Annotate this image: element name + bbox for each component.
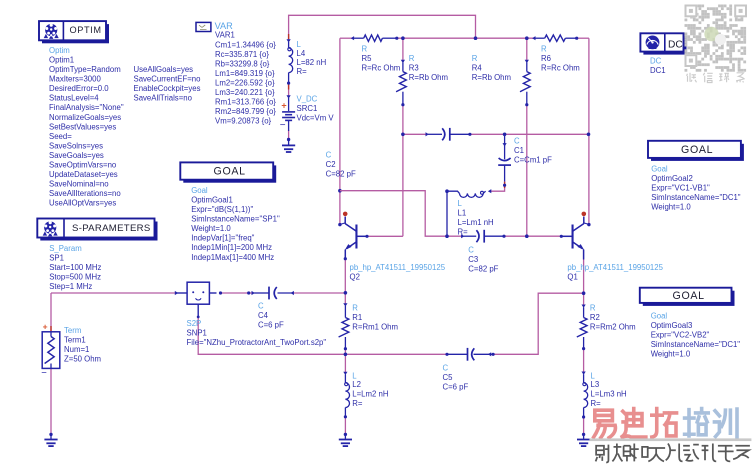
svg-text:IndepVar[1]="freq": IndepVar[1]="freq": [191, 234, 254, 243]
svg-text:SimInstanceName="SP1": SimInstanceName="SP1": [191, 215, 280, 224]
OptimGoal1 text: [191, 186, 280, 262]
OPTIM settings text column 2: [134, 65, 202, 103]
L2 labels: [352, 372, 388, 409]
svg-text:L1: L1: [458, 209, 467, 218]
svg-text:L3: L3: [591, 380, 600, 389]
svg-text:R=Rm2 Ohm: R=Rm2 Ohm: [590, 322, 636, 331]
junction node left branch: [338, 189, 342, 193]
resistor R1: [339, 303, 349, 349]
svg-text:Seed=: Seed=: [49, 132, 72, 141]
wire cross-couple to C3 left: [340, 191, 462, 237]
svg-text:UseAllOptVars=yes: UseAllOptVars=yes: [49, 199, 116, 208]
svg-text:Cm1=1.34496 {o}: Cm1=1.34496 {o}: [215, 40, 276, 49]
svg-text:R6: R6: [541, 54, 551, 63]
svg-text:Goal: Goal: [191, 186, 208, 195]
svg-text:Rm1=313.766 {o}: Rm1=313.766 {o}: [215, 98, 276, 107]
L3 labels: [591, 372, 627, 409]
capacitor C3: [461, 230, 504, 243]
svg-text:Rb=33299.8 {o}: Rb=33299.8 {o}: [215, 59, 270, 68]
svg-text:C=82 pF: C=82 pF: [468, 265, 498, 274]
svg-text:Rm2=849.799 {o}: Rm2=849.799 {o}: [215, 107, 276, 116]
svg-text:NormalizeGoals=yes: NormalizeGoals=yes: [49, 113, 121, 122]
svg-text:R4: R4: [472, 64, 483, 73]
capacitor C4: [252, 287, 295, 300]
svg-text:VAR: VAR: [215, 21, 234, 31]
SRC1 labels: [297, 95, 335, 123]
resistor R3: [396, 60, 406, 105]
svg-text:R: R: [352, 304, 358, 313]
wire SNP1 port2 to C5: [198, 317, 447, 354]
junctions on C2 net: [401, 133, 405, 137]
svg-text:R=: R=: [458, 228, 469, 237]
svg-text:C3: C3: [468, 255, 478, 264]
junctions on Q2 emitter column: [344, 291, 348, 295]
L4 labels: [297, 40, 327, 76]
svg-text:+: +: [43, 321, 48, 331]
svg-text:Step=1 MHz: Step=1 MHz: [49, 282, 92, 291]
capacitor C2: [426, 128, 470, 141]
svg-text:Expr="dB(S(1,1))": Expr="dB(S(1,1))": [191, 205, 253, 214]
svg-text:EnableCockpit=yes: EnableCockpit=yes: [134, 84, 201, 93]
capacitor C5: [445, 348, 494, 361]
svg-text:Weight=1.0: Weight=1.0: [651, 203, 691, 212]
svg-text:L2: L2: [352, 380, 361, 389]
svg-text:DC: DC: [668, 39, 683, 50]
wire L2 to ground: [344, 417, 346, 435]
svg-text:SetBestValues=yes: SetBestValues=yes: [49, 122, 116, 131]
svg-text:C: C: [326, 151, 332, 160]
wire Q2 emitter to R1: [344, 259, 346, 305]
svg-text:C=Cm1 pF: C=Cm1 pF: [514, 156, 552, 165]
Q2 pin nodes: [338, 223, 341, 226]
svg-text:VAR1: VAR1: [215, 31, 235, 40]
svg-text:C: C: [514, 137, 520, 146]
wire C1 bottom to L1: [491, 181, 505, 191]
gray watermark subtitle text: [596, 444, 750, 463]
svg-text:SaveNominal=no: SaveNominal=no: [49, 180, 109, 189]
R1 labels: [352, 304, 398, 332]
blue watermark logo text pei-xun: [685, 409, 737, 438]
wire rail to R4: [526, 38, 528, 61]
svg-text:V_DC: V_DC: [297, 95, 318, 104]
C3 labels: [468, 246, 498, 274]
ground under Term1: [44, 433, 57, 446]
svg-text:Q1: Q1: [567, 273, 577, 282]
svg-text:C5: C5: [443, 373, 454, 382]
WeChat contact text: [687, 73, 745, 83]
svg-text:OptimGoal2: OptimGoal2: [651, 174, 693, 183]
GOAL block OptimGoal2: [648, 141, 744, 161]
svg-text:GOAL: GOAL: [673, 290, 705, 302]
svg-text:Q2: Q2: [350, 273, 360, 282]
svg-text:DesiredError=0.0: DesiredError=0.0: [49, 84, 109, 93]
svg-text:C4: C4: [258, 311, 269, 320]
port terminal Term1: [41, 321, 60, 378]
wire SRC1 to ground: [288, 130, 290, 140]
svg-text:S-PARAMETERS: S-PARAMETERS: [72, 223, 151, 234]
OptimGoal2 text: [651, 165, 741, 212]
svg-text:UseAllGoals=yes: UseAllGoals=yes: [134, 65, 194, 74]
svg-text:SimInstanceName="DC1": SimInstanceName="DC1": [651, 340, 741, 349]
wire Term1 to ground: [50, 368, 52, 434]
svg-text:SNP1: SNP1: [187, 329, 207, 338]
wire R4 bottom to Q1 base node: [526, 105, 528, 237]
svg-text:OptimType=Random: OptimType=Random: [49, 65, 121, 74]
wire Q1 emitter to R2: [583, 260, 585, 306]
svg-text:DC: DC: [650, 56, 662, 65]
wire rail to R3: [402, 38, 404, 61]
OPTIM controller block: [39, 21, 109, 43]
SNP1 pin nodes: [219, 291, 222, 294]
Term1 labels: [64, 326, 101, 364]
svg-text:OptimGoal3: OptimGoal3: [651, 321, 693, 330]
svg-text:Weight=1.0: Weight=1.0: [651, 350, 691, 359]
R4 bottom pin: [525, 103, 528, 106]
svg-text:L=82 nH: L=82 nH: [297, 58, 327, 67]
svg-text:R=Rb Ohm: R=Rb Ohm: [472, 73, 511, 82]
ground under L2: [339, 433, 352, 446]
svg-text:OPTIM: OPTIM: [70, 25, 102, 35]
svg-text:DC1: DC1: [650, 66, 666, 75]
VAR1 variables text: [215, 31, 276, 126]
svg-text:SP1: SP1: [49, 254, 64, 263]
svg-text:File="NZhu_ProtractorAnt_TwoPo: File="NZhu_ProtractorAnt_TwoPort.s2p": [187, 338, 327, 347]
C1 bottom pin: [503, 184, 506, 187]
wire L3 to ground: [583, 417, 585, 434]
svg-text:R=Rc Ohm: R=Rc Ohm: [541, 64, 580, 73]
svg-text:C: C: [443, 364, 449, 373]
svg-text:C: C: [258, 302, 264, 311]
svg-text:Expr="VC2-VB2": Expr="VC2-VB2": [651, 331, 710, 340]
transistor Q1 pb_hp_AT41511_19950125: [561, 212, 588, 260]
C5 labels: [443, 364, 469, 392]
junctions on Q1 base net: [502, 235, 505, 238]
svg-text:GOAL: GOAL: [214, 166, 246, 178]
wire C4 to Q2 emitter node: [294, 292, 345, 294]
svg-text:L: L: [458, 199, 463, 208]
VAR equation block icon: [196, 22, 211, 31]
resistor R4: [520, 60, 530, 105]
inductor L3: [581, 372, 587, 418]
R6 right pin: [575, 37, 578, 40]
Q1 collector wire end: [587, 223, 590, 226]
svg-text:R: R: [472, 54, 478, 63]
svg-text:R5: R5: [362, 54, 373, 63]
svg-text:R=: R=: [297, 67, 308, 76]
transistor Q2 pb_hp_AT41511_19950125: [340, 212, 367, 259]
svg-text:C: C: [468, 246, 474, 255]
svg-text:L=Lm3 nH: L=Lm3 nH: [591, 390, 627, 399]
svg-text:R: R: [541, 45, 547, 54]
svg-text:R=Rb Ohm: R=Rb Ohm: [409, 73, 448, 82]
DC voltage source SRC1: [280, 95, 295, 131]
svg-text:L: L: [297, 40, 302, 49]
svg-text:R: R: [590, 304, 596, 313]
svg-text:Start=100 MHz: Start=100 MHz: [49, 263, 101, 272]
C2 labels: [326, 151, 356, 179]
wire Vcc top feed: [289, 15, 476, 40]
svg-text:Lm1=849.319 {o}: Lm1=849.319 {o}: [215, 69, 275, 78]
svg-text:R: R: [362, 45, 368, 54]
svg-text:Num=1: Num=1: [64, 345, 89, 354]
svg-text:Goal: Goal: [651, 165, 668, 174]
junctions on Vcc rail: [395, 37, 398, 40]
svg-text:SaveOptimVars=no: SaveOptimVars=no: [49, 161, 117, 170]
svg-text:Optim1: Optim1: [49, 56, 74, 65]
L2 bottom pin: [344, 415, 347, 418]
inductor L1: [445, 189, 491, 236]
wire C2 left: [403, 133, 427, 135]
ground under SRC1: [282, 138, 295, 152]
C4 labels: [258, 302, 284, 330]
svg-text:Goal: Goal: [651, 311, 668, 320]
svg-text:pb_hp_AT41511_19950125: pb_hp_AT41511_19950125: [567, 263, 663, 272]
wire R6 right: [577, 37, 589, 39]
svg-text:Term1: Term1: [64, 336, 86, 345]
DC simulation block: [640, 33, 686, 54]
svg-text:SaveAllIterations=no: SaveAllIterations=no: [49, 189, 121, 198]
svg-text:C=6 pF: C=6 pF: [258, 321, 284, 330]
resistor R5: [351, 35, 397, 41]
svg-text:FinalAnalysis="None": FinalAnalysis="None": [49, 103, 124, 112]
svg-text:Expr="VC1-VB1": Expr="VC1-VB1": [651, 184, 710, 193]
inductor L4: [286, 34, 292, 90]
svg-text:C=82 pF: C=82 pF: [326, 170, 356, 179]
svg-text:Indep1Min[1]=200 MHz: Indep1Min[1]=200 MHz: [191, 243, 272, 252]
svg-text:Term: Term: [64, 326, 81, 335]
wire R2 to L3: [583, 349, 585, 373]
svg-text:SimInstanceName="DC1": SimInstanceName="DC1": [651, 193, 741, 202]
wire R6 down to Q1 collector: [588, 38, 590, 224]
wire Term1 top: [50, 293, 52, 332]
L1 labels: [458, 199, 494, 237]
junction L1 to C3 net: [445, 234, 449, 238]
wire SNP1 to C4: [221, 292, 253, 294]
R3 labels: [409, 54, 448, 82]
svg-text:−: −: [41, 367, 47, 378]
svg-text:SaveSolns=yes: SaveSolns=yes: [49, 141, 103, 150]
svg-text:Z=50 Ohm: Z=50 Ohm: [64, 355, 101, 364]
svg-text:SaveCurrentEF=no: SaveCurrentEF=no: [134, 75, 202, 84]
R3 bottom pin: [401, 103, 404, 106]
svg-text:S2P: S2P: [187, 319, 202, 328]
WeChat icon in QR: [704, 27, 726, 45]
resistor R2: [577, 305, 587, 349]
SNP1 labels: [187, 319, 327, 347]
svg-text:L4: L4: [297, 49, 306, 58]
svg-text:L=Lm1 nH: L=Lm1 nH: [458, 218, 494, 227]
resistor R6: [532, 35, 577, 41]
svg-text:Indep1Max[1]=400 MHz: Indep1Max[1]=400 MHz: [191, 253, 274, 262]
svg-text:SaveGoals=yes: SaveGoals=yes: [49, 151, 104, 160]
svg-text:OptimGoal1: OptimGoal1: [191, 196, 233, 205]
wire R3 bottom to Q2 base node: [402, 105, 404, 237]
wire left branch down to Q2 collector: [339, 38, 341, 224]
wire L4 to SRC1: [288, 83, 290, 96]
svg-text:C=6 pF: C=6 pF: [443, 383, 469, 392]
watermark underline bar: [589, 438, 751, 441]
svg-text:SRC1: SRC1: [297, 104, 318, 113]
svg-text:R=: R=: [591, 399, 602, 408]
wire C2 right to Q1 collector net: [470, 133, 589, 135]
Q1 labels: [567, 263, 663, 282]
wire R1 to L2 node: [344, 349, 346, 373]
svg-text:Vdc=Vm V: Vdc=Vm V: [297, 114, 335, 123]
svg-text:R=Rc Ohm: R=Rc Ohm: [362, 64, 401, 73]
GOAL block OptimGoal1: [180, 162, 276, 182]
OPTIM settings text column 1: [49, 46, 124, 208]
svg-text:Lm3=240.221 {o}: Lm3=240.221 {o}: [215, 88, 275, 97]
wire C3 right to Q1 base: [504, 235, 561, 237]
wire C5 to Q1 emitter node: [493, 293, 583, 354]
svg-text:GOAL: GOAL: [681, 144, 713, 156]
wire Q2 base: [367, 235, 403, 237]
svg-text:C2: C2: [326, 160, 336, 169]
svg-text:+: +: [281, 101, 286, 111]
wire R5 to R6 (mid rail): [397, 37, 534, 39]
svg-text:R: R: [409, 54, 415, 63]
L4 bottom pin: [287, 82, 290, 85]
svg-text:UpdateDataset=yes: UpdateDataset=yes: [49, 170, 118, 179]
svg-text:Vm=9.20873 {o}: Vm=9.20873 {o}: [215, 117, 272, 126]
C1 labels: [514, 137, 552, 165]
svg-text:R=Rm1 Ohm: R=Rm1 Ohm: [352, 322, 398, 331]
svg-text:Stop=500 MHz: Stop=500 MHz: [49, 273, 101, 282]
svg-text:StatusLevel=4: StatusLevel=4: [49, 94, 99, 103]
svg-text:MaxIters=3000: MaxIters=3000: [49, 75, 101, 84]
Q2 labels: [350, 263, 446, 282]
L3 bottom pin: [582, 415, 585, 418]
svg-text:R=: R=: [352, 399, 363, 408]
svg-text:S_Param: S_Param: [49, 244, 82, 253]
svg-text:C1: C1: [514, 146, 524, 155]
DC1 label: [650, 56, 666, 75]
capacitor C1: [498, 134, 511, 188]
svg-text:R1: R1: [352, 313, 362, 322]
two-port file block SNP1: [175, 282, 217, 317]
svg-text:pb_hp_AT41511_19950125: pb_hp_AT41511_19950125: [350, 263, 446, 272]
R6 labels: [541, 45, 580, 73]
red watermark logo text yi-di-tuo: [594, 409, 677, 438]
wire Term1 to SNP1: [51, 292, 176, 294]
inductor L2: [343, 372, 349, 417]
svg-text:R2: R2: [590, 313, 600, 322]
SP1 settings text: [49, 244, 101, 291]
svg-text:R3: R3: [409, 64, 419, 73]
svg-text:−: −: [280, 120, 286, 131]
OptimGoal3 text: [651, 311, 741, 358]
svg-text:Weight=1.0: Weight=1.0: [191, 224, 231, 233]
svg-text:SaveAllTrials=no: SaveAllTrials=no: [134, 94, 193, 103]
wire rail to R5: [340, 37, 352, 39]
svg-text:Rc=335.871 {o}: Rc=335.871 {o}: [215, 50, 269, 59]
R4 labels: [472, 54, 511, 82]
svg-text:Optim: Optim: [49, 46, 70, 55]
S-PARAMETERS simulation block: [37, 219, 157, 241]
GOAL block OptimGoal3: [640, 288, 735, 306]
ground under L3: [577, 433, 590, 446]
svg-text:Lm2=226.592 {o}: Lm2=226.592 {o}: [215, 79, 275, 88]
R2 labels: [590, 304, 636, 332]
junctions on Q1 emitter column: [582, 291, 586, 295]
svg-text:L=Lm2 nH: L=Lm2 nH: [352, 390, 388, 399]
R5 labels: [362, 45, 401, 73]
QR code watermark: [685, 5, 747, 72]
